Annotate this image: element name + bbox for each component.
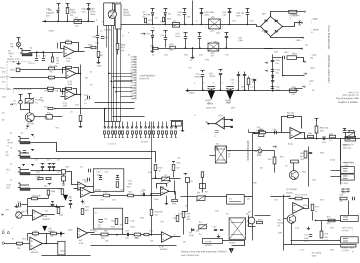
label extra 88 — [66, 61, 71, 63]
ground tick J4b — [31, 165, 34, 167]
svg-text:250V: 250V — [204, 15, 209, 17]
label extra 74 — [256, 130, 261, 132]
label 230Vsec — [295, 40, 302, 42]
capacitor C72 — [309, 235, 312, 237]
wire gnd rail — [295, 88, 303, 90]
offpage circle a — [2, 232, 4, 234]
junction jk2 — [53, 170, 55, 172]
svg-text:Tube Rotosphere MkII: Tube Rotosphere MkII — [335, 97, 359, 100]
label Q8b — [278, 223, 285, 225]
svg-text:100n: 100n — [275, 90, 280, 92]
jack J1 input — [20, 49, 32, 56]
pinrow contact 3 — [111, 127, 113, 129]
label aux — [0, 0, 1, 1]
label fill 45 — [75, 105, 80, 107]
psu mid bus y138 — [295, 138, 360, 140]
switch S3 — [229, 218, 245, 239]
diode pack D6a — [258, 130, 264, 136]
label extra 6 — [160, 22, 165, 24]
label IC5b — [218, 115, 223, 117]
svg-text:GND: GND — [310, 68, 315, 70]
wire K3 left2 — [205, 196, 227, 198]
label inL — [2, 230, 6, 232]
svg-text:2W: 2W — [121, 50, 124, 52]
capacitor C16 — [69, 204, 72, 205]
capacitor C43 — [246, 13, 249, 15]
label fill 80 — [95, 189, 101, 192]
capacitor C42b — [243, 75, 246, 76]
label C42 — [230, 80, 235, 82]
pin DSP-1 — [134, 56, 137, 57]
resistor R68 — [349, 130, 354, 132]
wire R30 dn — [155, 171, 157, 179]
wire IC2c out — [75, 94, 81, 96]
label fill 78 — [90, 230, 93, 232]
resistor R11 — [48, 107, 53, 109]
pinrow component 5 — [119, 131, 121, 134]
pot P1 — [24, 98, 34, 105]
capacitor C13 — [61, 232, 62, 235]
svg-text:GND: GND — [131, 98, 136, 100]
label extra 24 — [310, 58, 314, 60]
wire C42a up — [238, 72, 240, 75]
label D6 val — [257, 155, 262, 157]
label extra 101 — [181, 254, 200, 257]
wire IC3c in2 — [74, 188, 78, 190]
label extra 69 — [342, 230, 350, 232]
pinrow contact 10 — [140, 127, 142, 129]
text Free Transformer — [327, 26, 331, 50]
power rail V16 — [315, 119, 319, 122]
pinrow component 7 — [127, 131, 129, 134]
pinrow contact 7 — [127, 127, 129, 129]
label R16 — [36, 176, 41, 178]
label fill 7 — [155, 18, 158, 20]
resistor R18 — [33, 232, 39, 235]
wire IC4b fbr — [303, 199, 309, 209]
wire pinrow stub 18 — [175, 122, 177, 127]
svg-text:10u: 10u — [96, 175, 99, 177]
diode D10 — [323, 137, 326, 140]
svg-text:BC550: BC550 — [27, 123, 34, 125]
bridge BR1 outline — [261, 17, 283, 37]
resistor R28 — [144, 233, 149, 235]
label offpage — [277, 148, 278, 150]
label agnd1 — [205, 99, 211, 102]
wire reg-pin — [297, 58, 305, 62]
ground G12 — [81, 200, 84, 203]
label fill 60 — [10, 164, 13, 166]
label P4 — [344, 129, 351, 132]
label extra 84 — [84, 103, 87, 105]
label DSP header — [128, 55, 131, 57]
wire R2a — [52, 53, 54, 57]
label R26b — [104, 231, 109, 233]
svg-text:AIN: AIN — [131, 66, 135, 69]
wire C42b dn — [244, 76, 246, 91]
capacitor C52 — [271, 87, 274, 89]
label DSP pin 13 — [131, 88, 136, 90]
capacitor C15 — [51, 205, 54, 206]
wire pinrow tick 12 — [149, 135, 151, 138]
ground pinrow end — [181, 129, 184, 132]
label fill 109 — [330, 228, 335, 230]
svg-text:1 2 3 4 5: 1 2 3 4 5 — [108, 144, 117, 146]
label R11 — [44, 107, 48, 109]
wire J4 out — [31, 170, 62, 172]
wire IC6a drop — [175, 192, 177, 201]
wire U2 link — [63, 175, 65, 177]
capacitor C62 — [343, 131, 346, 133]
label R12 — [47, 113, 52, 115]
component box BL — [58, 241, 65, 255]
resistor R2 — [51, 57, 53, 62]
label fill 50 — [2, 97, 7, 99]
svg-text:(230V prim. 2x12V sek.): (230V prim. 2x12V sek.) — [327, 55, 331, 83]
label fill 61 — [10, 180, 13, 182]
wire pinrow tick 14 — [158, 135, 160, 138]
filter chain wire — [272, 55, 274, 91]
label DSP pin 6 — [131, 69, 136, 72]
filter top stub — [273, 57, 282, 59]
label extra 40 — [6, 172, 8, 174]
wire 15V rail — [283, 75, 305, 77]
label extra 68 — [344, 165, 347, 167]
wire R42 stub — [85, 47, 91, 49]
label extra 60 — [189, 235, 194, 237]
svg-text:POT 1 IN: POT 1 IN — [0, 89, 9, 91]
wire C47a — [226, 36, 228, 37]
pinrow contact 11 — [145, 127, 147, 129]
pinrow contact 6 — [122, 127, 124, 129]
label C12 — [17, 202, 22, 204]
svg-text:GND: GND — [60, 251, 65, 253]
wire right col drop — [252, 134, 254, 197]
diode D7 — [151, 13, 154, 16]
power arrow AGND3 — [63, 195, 68, 201]
label extra 54 — [150, 241, 154, 243]
label C32 — [104, 37, 109, 39]
resistor R51 — [61, 189, 64, 195]
lamp LA1 — [16, 42, 20, 46]
label Tb2 — [0, 68, 5, 70]
wire DSP p7 thin — [109, 73, 133, 75]
label D8 — [168, 14, 172, 16]
label fill 49 — [13, 92, 15, 94]
label fill 34 — [222, 83, 224, 85]
wire fb top2 — [38, 198, 49, 200]
svg-text:IC4a: IC4a — [288, 144, 293, 146]
label C72 — [304, 235, 309, 237]
svg-text:230V: 230V — [312, 256, 317, 258]
pin DSP-13 — [134, 87, 137, 88]
label R3 — [66, 40, 70, 42]
resistor R36 — [150, 210, 153, 216]
label IC4b — [303, 205, 308, 207]
wire R60b — [316, 133, 318, 139]
power arrow AGND1 — [208, 91, 216, 100]
svg-text:+350V: +350V — [48, 31, 55, 33]
wire pinrow tick 10 — [140, 135, 142, 138]
resistor R16 — [38, 177, 43, 179]
label extra 5 — [143, 17, 146, 19]
label fill 97 — [260, 168, 263, 170]
label P3a — [197, 192, 201, 194]
svg-text:47u: 47u — [275, 63, 278, 65]
label extra 73 — [327, 223, 332, 225]
wire R6 out — [55, 77, 67, 79]
pinrow bottom tick 2 — [108, 137, 110, 139]
label REG1 — [292, 54, 297, 56]
svg-text:12V: 12V — [256, 127, 260, 129]
wire pinrow end — [171, 121, 183, 130]
label extra 92 — [50, 72, 53, 74]
wire C41b — [229, 13, 231, 25]
label R75b — [324, 237, 328, 239]
label extra 31 — [343, 148, 351, 150]
svg-text:R60 10k: R60 10k — [320, 128, 329, 130]
label IC3a — [159, 246, 164, 248]
relay K3 box — [227, 195, 245, 205]
ground G5 — [15, 205, 19, 208]
wire pinrow tick 7 — [127, 135, 129, 138]
label C40 — [204, 12, 214, 14]
junction HT7 — [247, 24, 249, 26]
label extra 17 — [311, 32, 313, 34]
label ac1 — [290, 198, 291, 200]
label extra 3 — [81, 12, 86, 14]
power tick in box2 — [116, 176, 119, 177]
label extra 96 — [13, 104, 17, 106]
label B250C1500b — [123, 14, 131, 17]
wire to J11 — [331, 176, 341, 178]
wire left edge drop — [187, 183, 189, 212]
label IC5 pins — [194, 115, 196, 117]
wire R36 up — [151, 195, 153, 210]
label fill 71 — [5, 210, 10, 212]
wire C40a — [201, 11, 203, 13]
label extra 56 — [111, 227, 116, 229]
label fill 105 — [287, 196, 292, 198]
power rail V18 — [164, 31, 168, 34]
label extra 58 — [98, 227, 103, 229]
svg-text:*: * — [277, 148, 278, 150]
text revision — [349, 92, 360, 94]
wire pinrow tick 8 — [132, 135, 134, 138]
label fill 6 — [146, 24, 151, 26]
op-amp IC2a — [64, 46, 75, 57]
svg-text:15V: 15V — [309, 81, 314, 83]
svg-text:VREF: VREF — [226, 102, 232, 104]
pin DSP-14 — [134, 90, 137, 91]
label D6 val — [257, 154, 262, 156]
capacitor C53 — [99, 178, 102, 180]
label extra 30 — [320, 131, 325, 133]
power rail V15 — [28, 94, 32, 97]
svg-text:100n/25: 100n/25 — [194, 76, 202, 78]
wire C42b up — [244, 72, 246, 75]
label bus right — [256, 127, 260, 129]
junction HT2 — [164, 24, 166, 26]
op-amp IC6a — [160, 187, 169, 196]
wire pinrow stub 11 — [145, 122, 147, 127]
svg-text:prim: prim — [210, 30, 214, 33]
wire pinrow tick 5 — [119, 135, 121, 138]
ground G1 — [97, 61, 101, 64]
capacitor C17 electro — [99, 220, 104, 223]
label S3 — [247, 221, 250, 223]
capacitor C34 — [164, 38, 167, 40]
label extra 28 — [275, 73, 278, 75]
label R66 — [308, 133, 313, 135]
svg-text:+5V: +5V — [188, 68, 192, 70]
wire mid row — [28, 206, 65, 208]
label AGND — [189, 92, 195, 95]
label R21 — [17, 245, 22, 247]
ground G8 — [307, 227, 310, 230]
label fill 104 — [274, 200, 279, 202]
label R61b — [329, 140, 332, 142]
wire R60a — [316, 121, 318, 127]
label R2 1M — [0, 0, 1, 1]
resistor R5 — [49, 67, 55, 70]
label extra 82 — [129, 103, 131, 105]
label fill 42 — [85, 78, 88, 80]
svg-text:AGND: AGND — [189, 92, 195, 95]
label fill 52 — [40, 98, 43, 100]
svg-text:REG: REG — [292, 54, 297, 56]
pinrow bottom tick 18 — [175, 137, 177, 139]
ground G13 — [55, 205, 59, 208]
label extra 99 — [27, 126, 31, 128]
resistor R73 — [295, 197, 302, 200]
pinrow component 17 — [171, 131, 173, 134]
label IC3b — [79, 240, 82, 242]
wire C31b — [97, 38, 99, 51]
junction IC4a out — [304, 138, 306, 140]
wire midcol drop — [174, 181, 176, 195]
wire R74 dn — [312, 212, 314, 221]
label R70b — [339, 201, 343, 203]
ground G4 — [17, 62, 21, 65]
wire gnd LT — [192, 49, 194, 57]
label R74 — [315, 207, 320, 209]
wire K3 right — [245, 196, 253, 198]
junction trim — [155, 177, 157, 179]
wire IC2a fb — [61, 43, 79, 52]
wire IC5b out — [208, 123, 216, 125]
arrow aux left — [43, 20, 46, 22]
label extra 46 — [33, 236, 37, 238]
wire IC4a fb — [282, 117, 288, 133]
label extra 20 — [121, 50, 124, 52]
wire Q1 to bus — [55, 108, 135, 110]
junction dec1 — [202, 89, 204, 91]
svg-text:LO ROT: LO ROT — [342, 250, 350, 252]
label C40b l1 — [196, 74, 201, 76]
label extra 39 — [5, 155, 8, 157]
label fill 32 — [203, 83, 205, 85]
label heater — [176, 33, 181, 35]
wire D7a — [152, 12, 154, 13]
wire G10 — [152, 48, 154, 50]
relay K2 contact — [172, 23, 179, 28]
svg-text:C35: C35 — [81, 8, 86, 11]
label C56 — [142, 190, 147, 192]
pinrow contact 18 — [175, 127, 177, 129]
label P1 — [35, 100, 43, 102]
label Q8 — [278, 220, 282, 222]
net arrow IC5b — [206, 122, 209, 123]
junction HT5 — [201, 24, 203, 26]
label extra 13 — [190, 60, 193, 62]
pinrow contact 9 — [136, 127, 138, 129]
wire C42a dn — [238, 76, 240, 91]
bridge diode D2 — [275, 20, 277, 22]
svg-text:500mA: 500mA — [291, 13, 298, 16]
resistor R9 fb — [66, 66, 72, 68]
bridge diode D1 — [265, 20, 267, 22]
svg-text:SW: SW — [344, 165, 347, 167]
wire bridge-sec1 — [271, 37, 303, 38]
wire D8a — [165, 12, 167, 13]
wire in bottom — [5, 243, 17, 245]
wire C41b dn — [220, 75, 222, 91]
label C17 — [98, 225, 103, 227]
svg-text:to amp: to amp — [342, 182, 349, 185]
label fill 87 — [140, 218, 145, 220]
label extra 67 — [342, 193, 347, 195]
label C44 — [238, 38, 243, 40]
capacitor C61 — [275, 131, 277, 134]
label extra 78 — [176, 158, 180, 160]
pinrow component 1 — [104, 131, 106, 134]
svg-text:NE5532: NE5532 — [160, 249, 168, 251]
label fill 48 — [2, 82, 5, 84]
label fill 91 — [205, 192, 208, 194]
tube box right — [115, 4, 121, 29]
label fill 16 — [262, 14, 267, 16]
label DSP pin 7 — [131, 72, 136, 74]
label fill 94 — [183, 242, 186, 244]
label P3 — [199, 222, 202, 224]
wire C11b — [254, 81, 256, 91]
capacitor C2 — [42, 59, 45, 61]
label C20 — [212, 227, 217, 229]
label 100nb — [238, 40, 244, 42]
svg-text:out: out — [45, 210, 48, 213]
svg-text:Db 2 POT: Db 2 POT — [0, 77, 10, 79]
bridge diode D3 — [265, 30, 267, 32]
wire D11a — [58, 7, 60, 10]
wire IC5b in+ — [225, 119, 231, 121]
label extra 52 — [79, 243, 84, 245]
capacitor jk2 — [52, 167, 55, 168]
label fill 58 — [10, 133, 13, 135]
label K3 — [229, 199, 232, 201]
svg-text:100n: 100n — [238, 40, 244, 42]
label C41b l2 — [209, 76, 216, 78]
wire br right drop — [348, 201, 350, 216]
capacitor jk1 — [48, 167, 51, 168]
pinrow contact 16 — [166, 127, 168, 129]
label BR2 — [123, 9, 128, 12]
resistor R59 — [201, 172, 204, 178]
resistor R58 — [172, 199, 178, 201]
label Q7 — [286, 189, 297, 191]
svg-text:1M: 1M — [56, 60, 59, 62]
svg-text:fuse: T500mA 250V: fuse: T500mA 250V — [181, 254, 200, 257]
